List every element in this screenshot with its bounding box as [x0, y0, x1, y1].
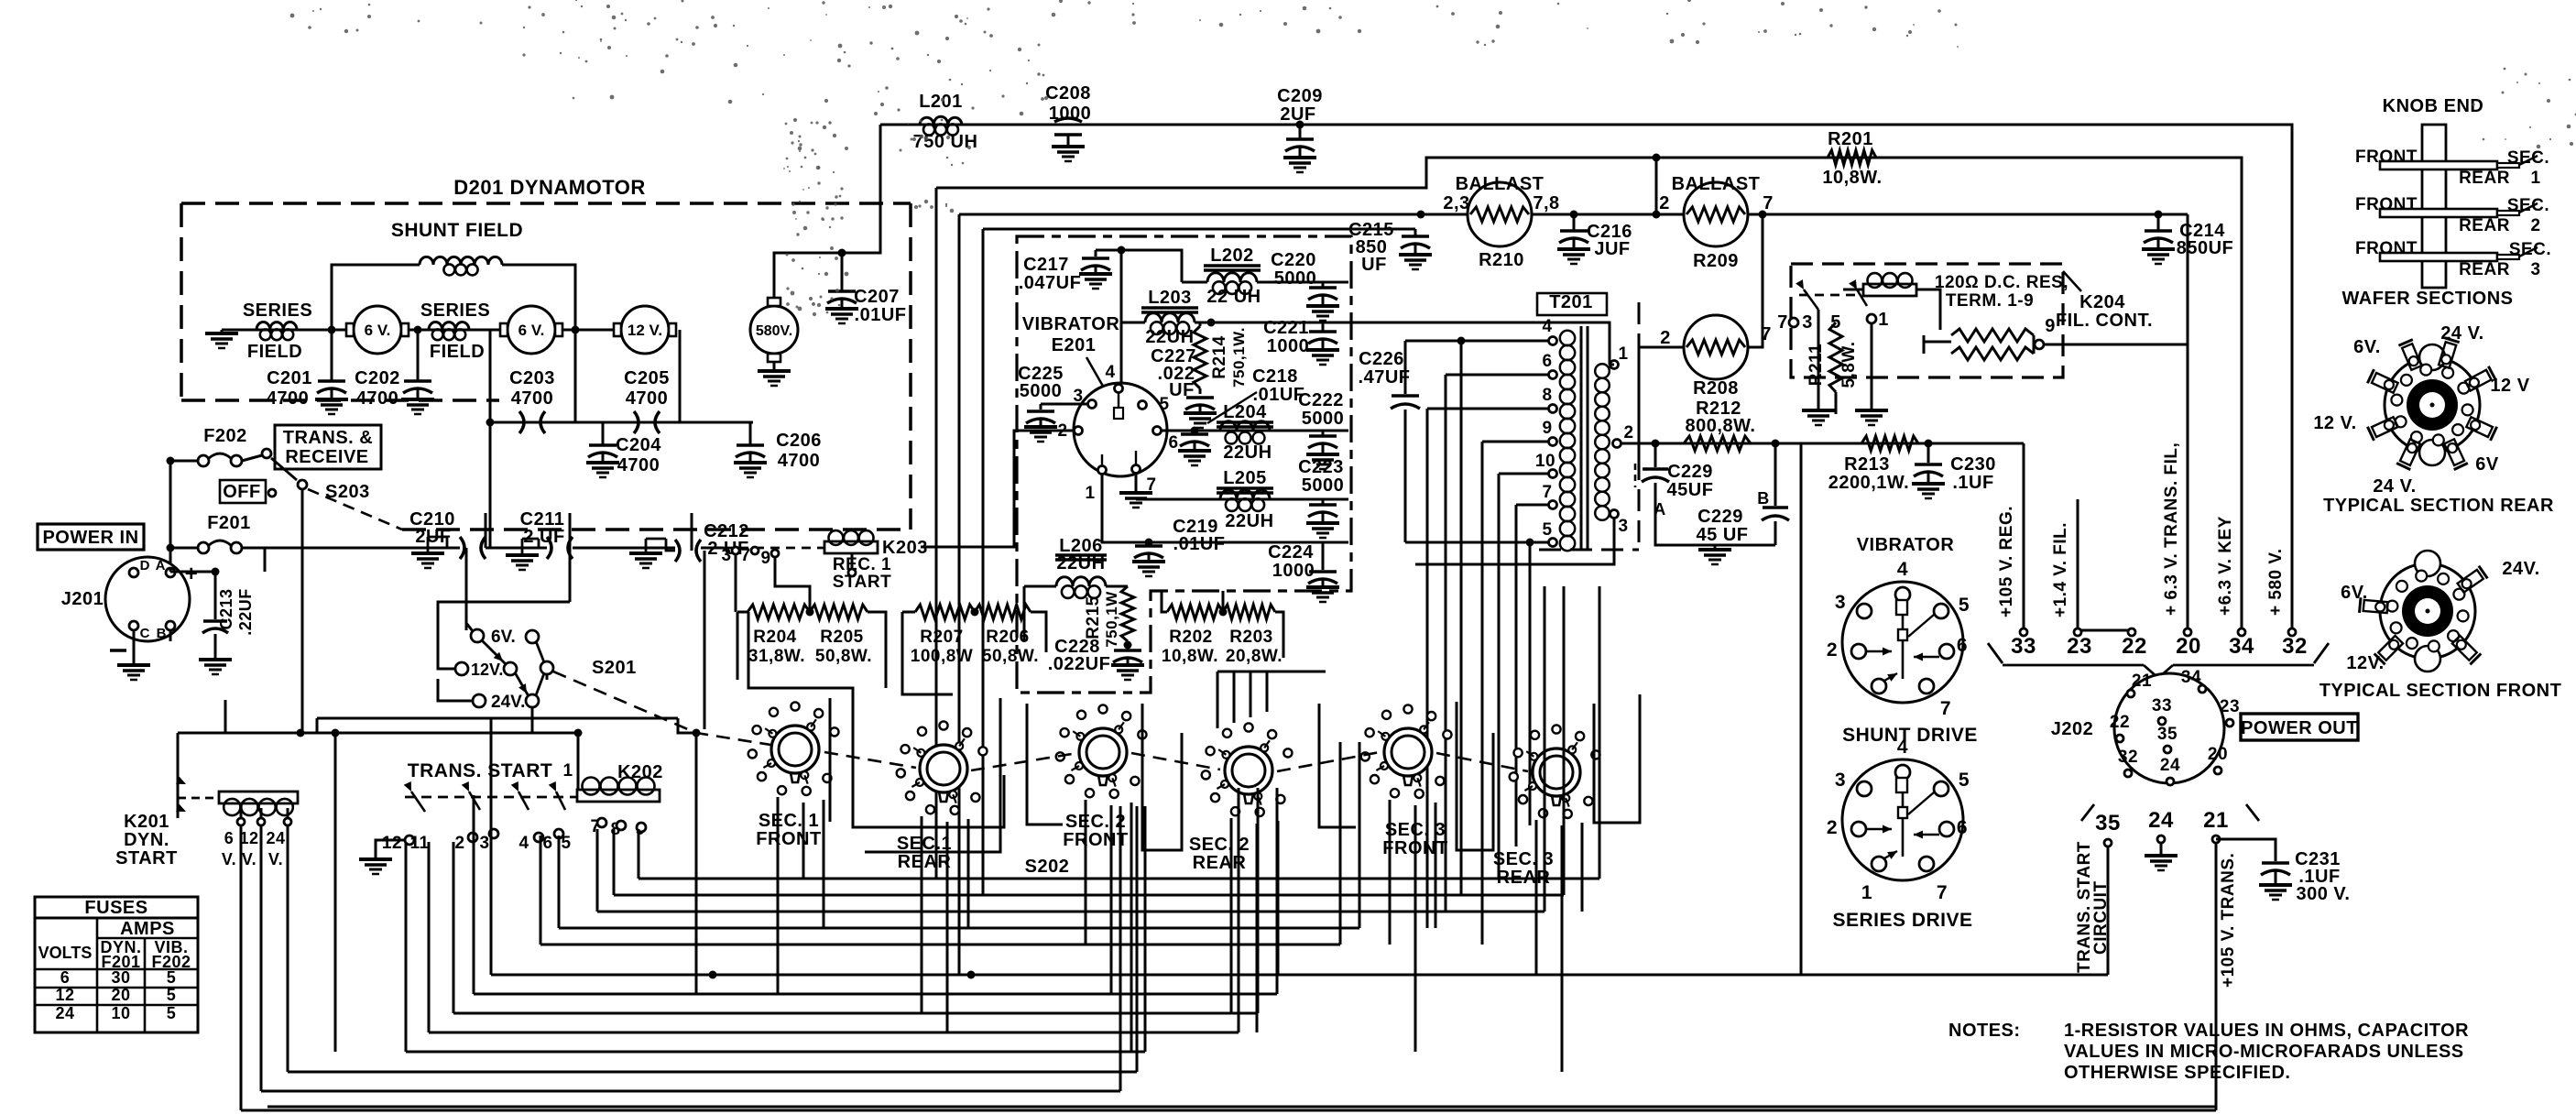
svg-text:24: 24	[2160, 756, 2180, 775]
svg-text:5: 5	[1542, 520, 1552, 540]
ballast lamp R210	[1468, 182, 1532, 246]
svg-text:FRONT: FRONT	[1063, 830, 1128, 850]
ground vib pin7	[1135, 473, 1138, 493]
wire R208 left	[1639, 347, 1684, 469]
wire bank1 leads	[737, 611, 748, 614]
svg-text:C230: C230	[1950, 454, 1996, 475]
svg-text:20: 20	[2208, 745, 2228, 764]
svg-text:R205: R205	[820, 628, 863, 647]
svg-text:FIELD: FIELD	[247, 342, 302, 362]
capacitor C230	[1927, 443, 1930, 463]
svg-text:R206: R206	[986, 628, 1029, 647]
svg-text:SERIES: SERIES	[420, 300, 490, 321]
svg-text:1: 1	[1618, 344, 1628, 364]
svg-text:5000: 5000	[1302, 409, 1345, 429]
T201 secondary pins	[1610, 361, 1619, 369]
svg-text:9: 9	[760, 549, 770, 568]
wire y800 line	[178, 732, 578, 735]
svg-text:F201: F201	[207, 513, 251, 533]
relay K204 dashed box	[1791, 264, 2063, 377]
svg-text:24 V.: 24 V.	[2440, 323, 2483, 344]
svg-text:300 V.: 300 V.	[2297, 884, 2351, 904]
wafer section bar 2	[2380, 209, 2497, 217]
svg-text:+6.3 V. KEY: +6.3 V. KEY	[2216, 516, 2235, 616]
svg-text:C218: C218	[1252, 366, 1298, 387]
wafer section bar 3	[2380, 253, 2497, 261]
svg-text:5000: 5000	[1020, 381, 1063, 401]
vibrator SHUNT DRIVE	[1842, 582, 1963, 703]
resistor R202	[1167, 605, 1223, 619]
svg-text:L203: L203	[1148, 288, 1192, 308]
svg-text:2: 2	[1827, 639, 1838, 661]
rotary wafer SEC.1 REAR	[920, 745, 967, 792]
svg-text:9: 9	[2045, 316, 2056, 336]
svg-text:6V.: 6V.	[2353, 337, 2381, 357]
terminal circles	[2020, 628, 2027, 636]
svg-text:2: 2	[1659, 193, 1670, 213]
svg-text:TERM. 1-9: TERM. 1-9	[1946, 291, 2034, 311]
svg-text:C209: C209	[1277, 86, 1323, 106]
svg-text:.022UF: .022UF	[1048, 654, 1111, 674]
connector J202	[2114, 673, 2224, 783]
svg-text:START: START	[115, 848, 178, 868]
svg-text:6: 6	[60, 968, 71, 987]
svg-text:24: 24	[2148, 808, 2174, 833]
resistor R205	[810, 605, 868, 619]
transformer T201 secondary coil	[1595, 364, 1610, 378]
svg-text:22 UH: 22 UH	[1206, 287, 1261, 307]
svg-text:800,8W.: 800,8W.	[1686, 416, 1756, 436]
svg-text:SHUNT FIELD: SHUNT FIELD	[391, 220, 523, 241]
switch S201 blades	[482, 640, 506, 664]
ground C229 common	[1655, 513, 1775, 545]
svg-text:V.: V.	[222, 850, 236, 868]
svg-text:50,8W.: 50,8W.	[815, 647, 872, 666]
svg-text:.1UF: .1UF	[1952, 473, 1993, 493]
wire vib row A	[1162, 430, 1348, 432]
resistor R211	[1829, 322, 1842, 392]
svg-text:FIELD: FIELD	[430, 342, 485, 362]
svg-text:4700: 4700	[267, 388, 310, 409]
svg-text:FRONT: FRONT	[756, 829, 821, 849]
inductor series field 2	[429, 322, 469, 330]
resistor R203	[1223, 605, 1275, 619]
svg-text:TYPICAL SECTION FRONT: TYPICAL SECTION FRONT	[2319, 681, 2562, 701]
svg-text:C229: C229	[1697, 507, 1743, 527]
svg-text:J201: J201	[61, 589, 104, 609]
wires from wafer SEC. 3 FRONT	[1389, 800, 1392, 945]
svg-text:C202: C202	[355, 368, 400, 388]
svg-text:23: 23	[2220, 697, 2240, 716]
svg-text:E201: E201	[1052, 335, 1097, 355]
svg-text:FRONT: FRONT	[2355, 239, 2418, 258]
svg-text:R207: R207	[920, 628, 963, 647]
svg-text:45UF: 45UF	[1667, 480, 1714, 500]
motor 6V second	[508, 306, 555, 354]
svg-text:35: 35	[2095, 811, 2121, 835]
wire T201 drop 1595	[1460, 341, 1463, 895]
capacitor C231	[2262, 861, 2289, 865]
wire L203 line to T201	[1211, 322, 1610, 365]
wire y784 line	[317, 717, 678, 720]
svg-text:L201: L201	[919, 92, 963, 112]
svg-text:F202: F202	[203, 426, 247, 446]
svg-text:5,8W.: 5,8W.	[1839, 341, 1859, 388]
wire T201 drop 1670	[1529, 542, 1532, 825]
svg-text:2200,1W.: 2200,1W.	[1828, 473, 1910, 493]
svg-text:KNOB END: KNOB END	[2383, 96, 2484, 116]
svg-text:C203: C203	[509, 368, 555, 388]
svg-text:4: 4	[1105, 363, 1115, 382]
switch S203 dashed link	[308, 489, 402, 530]
wire vib pin2 lead	[921, 431, 1074, 547]
svg-text:R202: R202	[1169, 628, 1212, 647]
svg-text:VALUES IN MICRO-MICROFARADS: VALUES IN MICRO-MICROFARADS UNLESS	[2064, 1042, 2464, 1062]
svg-text:24: 24	[55, 1004, 74, 1022]
bus wire y1191	[261, 1090, 1120, 1093]
svg-text:11: 11	[409, 834, 429, 853]
svg-text:24V.: 24V.	[491, 693, 525, 712]
svg-text:REC. 1: REC. 1	[833, 555, 891, 574]
bus wire y1148	[406, 1051, 1145, 1054]
svg-text:24 V.: 24 V.	[2373, 476, 2416, 497]
resistor R212	[1684, 436, 1751, 451]
resistor R201	[1828, 150, 1876, 165]
svg-text:6V.: 6V.	[2341, 583, 2368, 603]
svg-text:SEC. 1: SEC. 1	[759, 811, 819, 831]
svg-text:R208: R208	[1693, 378, 1739, 399]
svg-text:B: B	[1757, 489, 1770, 508]
wire +105V TRANS riser	[267, 843, 2216, 1107]
svg-text:6: 6	[1957, 635, 1968, 656]
svg-text:B: B	[157, 626, 167, 641]
wire top +580V bus	[880, 125, 2292, 630]
svg-text:C221: C221	[1263, 318, 1309, 338]
bus wire y959	[639, 878, 1599, 880]
svg-text:32: 32	[2118, 748, 2138, 767]
svg-text:K203: K203	[882, 538, 928, 558]
svg-text:C217: C217	[1023, 255, 1069, 275]
motor 6V first	[354, 306, 401, 354]
svg-text:22: 22	[2110, 713, 2130, 732]
svg-text:REAR: REAR	[2459, 216, 2510, 235]
rotary wafer SEC. 1 FRONT	[771, 726, 819, 773]
svg-text:VOLTS: VOLTS	[38, 944, 93, 962]
ballast lamp R209	[1684, 182, 1748, 246]
svg-text:120Ω D.C. RES,: 120Ω D.C. RES,	[1935, 273, 2068, 292]
svg-text:+1.4 V. FIL.: +1.4 V. FIL.	[2051, 522, 2070, 617]
svg-text:31,8W.: 31,8W.	[748, 647, 805, 666]
svg-text:6: 6	[224, 829, 235, 847]
wire C217 node	[1096, 250, 1182, 282]
svg-text:7: 7	[1777, 312, 1788, 333]
svg-text:20: 20	[111, 986, 130, 1004]
svg-text:TYPICAL SECTION REAR: TYPICAL SECTION REAR	[2323, 496, 2554, 516]
svg-text:D201 DYNAMOTOR: D201 DYNAMOTOR	[453, 176, 646, 199]
wire K201 taps	[240, 808, 243, 1110]
svg-text:3: 3	[2530, 260, 2540, 279]
terminal verticals	[2023, 443, 2025, 630]
J201 pin B stub	[169, 630, 172, 641]
vibrator SERIES DRIVE	[1842, 759, 1963, 880]
wire C212 drop	[704, 605, 706, 729]
svg-text:+ 6.3 V. TRANS. FIL,: + 6.3 V. TRANS. FIL,	[2162, 442, 2181, 616]
capacitor C229 B	[1774, 443, 1777, 506]
svg-text:4: 4	[1542, 317, 1552, 336]
wire vib row B	[1136, 498, 1348, 501]
svg-text:9: 9	[1542, 419, 1552, 438]
wire 580V feed	[774, 125, 880, 298]
wire fuse riser	[169, 461, 172, 568]
typical section rear wafer	[2385, 357, 2480, 453]
svg-text:24: 24	[266, 829, 285, 847]
svg-text:FRONT: FRONT	[2355, 147, 2418, 167]
wire S201 to bus	[531, 707, 534, 733]
wire vib pin1 row	[1102, 474, 1348, 542]
transformer T201 core	[1580, 326, 1583, 550]
svg-text:7: 7	[1542, 483, 1552, 502]
svg-text:.01UF: .01UF	[1173, 534, 1226, 554]
svg-text:12 V.: 12 V.	[2313, 413, 2356, 433]
svg-text:1-RESISTOR VALUES IN OHMS,: 1-RESISTOR VALUES IN OHMS, CAPACITOR	[2064, 1021, 2469, 1041]
svg-text:3: 3	[1835, 592, 1846, 613]
svg-text:C208: C208	[1045, 83, 1091, 104]
svg-text:+105 V. TRANS.: +105 V. TRANS.	[2219, 853, 2238, 988]
relay K204 contacts	[1799, 294, 1861, 297]
svg-text:7,8: 7,8	[1533, 193, 1559, 213]
svg-text:5: 5	[1959, 595, 1970, 616]
svg-text:R201: R201	[1828, 129, 1873, 149]
svg-text:7: 7	[1937, 882, 1948, 903]
rotary wafer SEC. 3 REAR	[1533, 748, 1580, 796]
ground left of series field	[205, 332, 238, 335]
wire K204 coil leads	[1843, 289, 1863, 291]
svg-text:TRANS. &: TRANS. &	[283, 428, 373, 448]
svg-text:R215: R215	[1084, 595, 1103, 639]
svg-text:START: START	[833, 573, 891, 592]
bus wire y1212	[241, 1109, 2216, 1112]
wire T201 pin5 line	[1405, 541, 1549, 544]
svg-text:C220: C220	[1271, 250, 1316, 270]
svg-text:BALLAST: BALLAST	[1456, 174, 1545, 194]
svg-text:C207: C207	[854, 287, 900, 307]
svg-text:K204: K204	[2079, 292, 2125, 312]
svg-text:2: 2	[1827, 817, 1838, 838]
svg-text:1000: 1000	[1272, 561, 1315, 581]
wire T201 drop 1655	[1515, 505, 1518, 846]
wire T201 drop 1618	[1481, 442, 1484, 945]
bus wire y977	[614, 894, 1564, 897]
svg-text:21: 21	[2203, 808, 2229, 833]
svg-text:C205: C205	[624, 368, 670, 388]
wire cap row 461	[489, 330, 492, 548]
wire R209-R208 link	[1748, 214, 1763, 347]
svg-text:22UH: 22UH	[1223, 442, 1272, 463]
svg-text:10: 10	[111, 1004, 130, 1022]
svg-text:L202: L202	[1210, 246, 1254, 266]
svg-text:22: 22	[2122, 634, 2147, 659]
motor 580V	[750, 306, 798, 354]
svg-text:FIL. CONT.: FIL. CONT.	[2056, 311, 2153, 331]
wire T201 pin1 stub	[1610, 364, 1614, 366]
svg-text:6: 6	[1542, 352, 1552, 371]
wires from wafer SEC. 3 REAR	[1535, 820, 1538, 975]
svg-text:L205: L205	[1223, 468, 1267, 488]
svg-text:CIRCUIT: CIRCUIT	[2091, 880, 2111, 955]
wire T201 pin9 line	[1482, 441, 1549, 443]
typical section front wafer	[2380, 563, 2475, 659]
inductor series field 1	[257, 322, 297, 330]
svg-text:FUSES: FUSES	[84, 898, 147, 918]
svg-text:RECEIVE: RECEIVE	[285, 447, 368, 467]
svg-text:SEC. 2: SEC. 2	[1189, 835, 1250, 855]
svg-text:750,1W: 750,1W	[1103, 591, 1120, 648]
fuse table FUSES	[35, 897, 198, 1032]
svg-text:1000: 1000	[1267, 336, 1310, 356]
wire y234 riser	[958, 214, 961, 975]
svg-text:A: A	[156, 558, 166, 573]
svg-text:4700: 4700	[356, 388, 399, 409]
wire C211 risers	[569, 513, 572, 548]
svg-text:V.: V.	[268, 850, 283, 868]
svg-text:V.: V.	[242, 850, 257, 868]
svg-text:3: 3	[1835, 770, 1846, 791]
wire T201 pin10 line	[1499, 473, 1549, 475]
resistor R215	[1121, 586, 1134, 641]
svg-text:1: 1	[562, 761, 573, 781]
wire T201 pin8 line	[1427, 408, 1549, 410]
svg-text:UF: UF	[1361, 255, 1387, 275]
svg-text:REAR: REAR	[898, 852, 952, 872]
wire K203 risers	[735, 554, 737, 612]
svg-text:4: 4	[518, 834, 529, 853]
resistor R206	[975, 605, 1031, 619]
svg-text:L204: L204	[1223, 402, 1267, 422]
svg-text:SHUNT DRIVE: SHUNT DRIVE	[1842, 725, 1978, 746]
svg-text:C201: C201	[267, 368, 312, 388]
wiring around SEC3	[1319, 704, 1356, 827]
svg-text:4: 4	[1897, 737, 1908, 758]
svg-text:12V.: 12V.	[471, 661, 503, 679]
wire T201 pin4 line	[1405, 340, 1549, 343]
svg-text:T201: T201	[1549, 292, 1593, 312]
svg-text:580V.: 580V.	[756, 323, 792, 339]
svg-text:S202: S202	[1025, 857, 1070, 877]
svg-text:.22UF: .22UF	[236, 588, 255, 636]
svg-text:SEC.: SEC.	[2509, 240, 2551, 259]
vibrator dashed box	[1017, 236, 1351, 693]
svg-text:POWER OUT: POWER OUT	[2241, 718, 2358, 738]
svg-text:12: 12	[55, 986, 74, 1004]
svg-text:12 V.: 12 V.	[628, 322, 662, 339]
svg-text:21: 21	[2132, 672, 2152, 691]
svg-text:2: 2	[1660, 328, 1671, 348]
wire J201 A lead	[169, 568, 172, 572]
svg-text:6: 6	[1957, 817, 1968, 838]
svg-text:20: 20	[2176, 634, 2201, 659]
svg-text:2: 2	[1623, 423, 1633, 442]
wire T201 drop 1558	[1426, 409, 1429, 928]
svg-text:2: 2	[454, 834, 464, 853]
svg-text:TRANS. START: TRANS. START	[408, 760, 552, 781]
svg-text:J202: J202	[2051, 719, 2094, 739]
svg-text:S201: S201	[592, 658, 637, 678]
svg-text:REAR: REAR	[2459, 169, 2510, 188]
bus wire y1031	[540, 944, 1340, 946]
capacitor C214	[2155, 211, 2163, 219]
svg-text:34: 34	[2229, 634, 2254, 659]
bus wire y1127	[429, 1032, 1239, 1034]
svg-text:2 UF: 2 UF	[523, 527, 564, 547]
wire R212 line	[1621, 442, 1801, 445]
svg-text:10: 10	[1535, 452, 1555, 471]
motor 12V	[621, 306, 669, 354]
wire ballast line	[959, 213, 2188, 216]
svg-text:R209: R209	[1693, 251, 1739, 271]
vibrator pins	[1115, 385, 1123, 393]
wires from wafer SEC. 2 FRONT	[1085, 800, 1087, 945]
ballast lamp R208	[1684, 315, 1748, 379]
svg-text:12 V: 12 V	[2490, 376, 2529, 396]
text POWER OUT box	[2241, 714, 2358, 740]
svg-text:3: 3	[1802, 312, 1813, 333]
svg-text:5000: 5000	[1302, 475, 1345, 496]
wire J201 C ground	[133, 630, 136, 665]
svg-text:50,8W.: 50,8W.	[982, 647, 1039, 666]
svg-text:C229: C229	[1667, 462, 1713, 482]
wafer section bar 1	[2380, 161, 2497, 169]
svg-text:4700: 4700	[626, 388, 669, 409]
svg-text:R214: R214	[1210, 335, 1229, 378]
svg-text:35: 35	[2157, 725, 2178, 744]
wire T201 pin3 drop	[1415, 519, 1614, 564]
text TRANS & RECEIVE box	[275, 425, 381, 469]
svg-text:VIBRATOR: VIBRATOR	[1022, 314, 1120, 334]
svg-text:5: 5	[1959, 770, 1970, 791]
svg-text:3: 3	[1618, 517, 1628, 536]
svg-text:4700: 4700	[778, 451, 821, 471]
resistor K204 parallel pair	[1924, 341, 1951, 344]
svg-text:12V.: 12V.	[2346, 653, 2384, 673]
wire L206 left	[1023, 586, 1026, 641]
svg-text:6 V.: 6 V.	[518, 322, 545, 339]
svg-text:32: 32	[2282, 634, 2308, 659]
wire F201 to C210	[242, 547, 460, 550]
relay K204 coil	[1863, 284, 1916, 296]
scan noise specks	[711, 16, 715, 19]
vibrator E201 circle	[1074, 383, 1167, 476]
svg-text:C226: C226	[1359, 349, 1404, 369]
svg-text:R204: R204	[753, 628, 796, 647]
svg-text:FRONT: FRONT	[2355, 195, 2418, 214]
svg-text:WAFER SECTIONS: WAFER SECTIONS	[2341, 289, 2513, 309]
wire C210 risers	[485, 513, 487, 548]
svg-text:8: 8	[1542, 386, 1552, 405]
capacitor C215	[1414, 229, 1417, 236]
capacitor C213	[214, 572, 217, 619]
svg-text:6: 6	[1168, 433, 1178, 453]
svg-text:C222: C222	[1298, 390, 1344, 410]
bus wire y995	[597, 911, 1545, 913]
inductor L201	[920, 116, 962, 125]
svg-text:30: 30	[111, 968, 130, 987]
svg-text:SEC. 2: SEC. 2	[1065, 812, 1126, 832]
svg-text:12: 12	[239, 829, 258, 847]
wire bank3 leads	[1162, 591, 1167, 612]
svg-text:VIBRATOR: VIBRATOR	[1857, 535, 1955, 555]
switch S201 contacts	[471, 629, 484, 642]
svg-text:SEC.: SEC.	[2507, 196, 2549, 215]
